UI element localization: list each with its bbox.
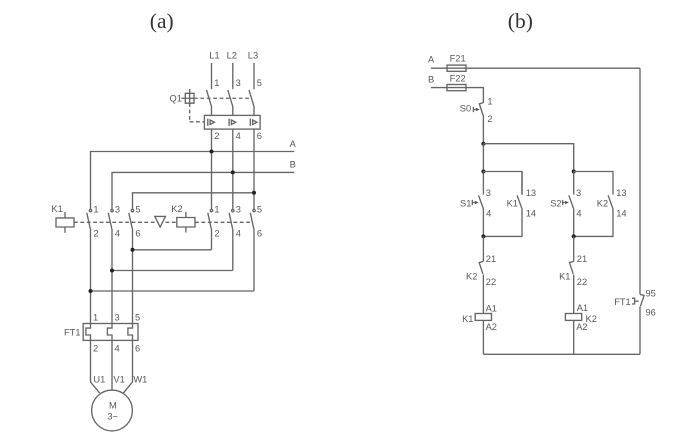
breaker Q1 manual operator — [181, 93, 194, 103]
coil K2 — [565, 314, 581, 321]
svg-text:(b): (b) — [508, 9, 533, 33]
svg-text:2: 2 — [487, 114, 492, 124]
coil K1 — [475, 314, 491, 321]
FT1 trip actuator — [632, 298, 639, 304]
svg-text:5: 5 — [135, 313, 140, 323]
svg-text:14: 14 — [526, 209, 536, 219]
wire FT1-4 to motor V1 — [111, 340, 113, 390]
breaker Q1 pole 2 contact — [228, 90, 233, 116]
svg-text:F22: F22 — [450, 74, 466, 84]
svg-text:K1: K1 — [462, 314, 473, 324]
start button S1 (NO) — [479, 195, 484, 236]
svg-text:A: A — [428, 55, 435, 65]
wire K1 coil to bottom — [482, 320, 484, 354]
svg-text:S2: S2 — [550, 198, 561, 208]
motor M1 body — [92, 390, 133, 431]
wire L1 drop — [211, 63, 213, 89]
svg-text:3: 3 — [115, 205, 120, 215]
svg-text:4: 4 — [236, 131, 241, 141]
svg-text:22: 22 — [486, 277, 496, 287]
svg-text:B: B — [290, 159, 296, 169]
K2 contact pole 3 — [250, 209, 255, 291]
svg-text:95: 95 — [646, 288, 656, 298]
wire S1 to K2 NC — [482, 236, 484, 261]
svg-text:K1: K1 — [51, 204, 62, 214]
svg-text:FT1: FT1 — [614, 297, 631, 307]
thermal contact FT1 95-96 (NC) — [640, 294, 644, 354]
FT1 heater element 3 — [128, 324, 133, 341]
svg-text:6: 6 — [257, 228, 262, 238]
svg-text:5: 5 — [257, 205, 262, 215]
svg-text:6: 6 — [257, 131, 262, 141]
svg-text:4: 4 — [486, 209, 491, 219]
svg-text:M: M — [109, 401, 117, 411]
svg-text:S1: S1 — [460, 198, 471, 208]
svg-text:L3: L3 — [248, 51, 258, 61]
junction S1/K1 aux — [481, 234, 485, 238]
breaker Q1 overcurrent release I> 1 — [208, 119, 215, 126]
junction K1-2 — [89, 289, 93, 293]
wire K2 coil to bottom — [573, 320, 575, 354]
svg-text:5: 5 — [135, 205, 140, 215]
wire branch to K1 aux — [483, 172, 522, 195]
svg-text:4: 4 — [115, 228, 120, 238]
junction S2/K2 aux — [572, 234, 576, 238]
svg-text:1: 1 — [214, 78, 219, 88]
svg-text:A2: A2 — [486, 322, 497, 332]
svg-text:2: 2 — [93, 343, 98, 353]
svg-text:4: 4 — [115, 343, 120, 353]
svg-text:L2: L2 — [227, 51, 237, 61]
stop button S0 (NC) — [479, 103, 483, 144]
K2 contact pole 1 — [208, 209, 213, 249]
breaker Q1 trip unit box — [204, 115, 260, 129]
junction L1/A — [210, 150, 214, 154]
wire branch to K2 aux — [574, 172, 613, 195]
svg-text:3: 3 — [486, 188, 491, 198]
interlock contact K1 21-22 (NC) — [570, 261, 574, 313]
svg-text:96: 96 — [646, 308, 656, 318]
svg-text:1: 1 — [93, 205, 98, 215]
thermal relay FT1 box — [83, 324, 138, 341]
svg-text:K2: K2 — [466, 272, 477, 282]
svg-text:13: 13 — [526, 188, 536, 198]
svg-text:(a): (a) — [150, 9, 174, 33]
S0 actuator arrowhead — [476, 108, 480, 112]
crossover wire K1-4 to K2-4 — [112, 270, 233, 272]
aux contact K1 13-14 (NO) — [483, 172, 522, 237]
svg-text:2: 2 — [93, 228, 98, 238]
svg-text:K1: K1 — [559, 272, 570, 282]
wire B to S0 — [431, 88, 484, 103]
fuse F22 — [447, 85, 466, 91]
wire FT1-2 to motor U1 — [91, 340, 100, 393]
svg-text:B: B — [428, 75, 434, 85]
svg-text:22: 22 — [577, 277, 587, 287]
svg-text:K1: K1 — [507, 198, 518, 208]
K1 linkage (dashed) — [74, 221, 252, 223]
K1 contact pole 3 — [129, 209, 134, 323]
svg-text:A1: A1 — [486, 304, 497, 314]
wire L2 drop — [232, 63, 234, 89]
svg-text:U1: U1 — [93, 374, 105, 384]
svg-text:14: 14 — [616, 209, 626, 219]
contactor K2 coil — [177, 212, 195, 233]
FT1 heater element 1 — [86, 324, 91, 341]
breaker Q1 pole 3 contact — [249, 90, 254, 116]
FT1 heater element 2 — [107, 324, 112, 341]
svg-text:4: 4 — [236, 228, 241, 238]
node B wire — [112, 172, 294, 209]
aux contact K2 13-14 (NO) — [574, 195, 613, 236]
svg-text:2: 2 — [214, 228, 219, 238]
contactor K1 coil — [56, 212, 74, 233]
svg-text:2: 2 — [214, 131, 219, 141]
wire L1 below breaker — [211, 129, 213, 210]
wire L3 branch — [133, 193, 255, 210]
wire L3 below breaker — [253, 129, 255, 210]
svg-text:W1: W1 — [133, 374, 147, 384]
wire L2 below breaker — [232, 129, 234, 210]
K2 contact pole 2 — [229, 209, 234, 270]
svg-text:3: 3 — [576, 188, 581, 198]
breaker Q1 overcurrent release I> 2 — [229, 119, 236, 126]
wire L3 drop — [253, 63, 255, 89]
svg-text:1: 1 — [214, 205, 219, 215]
breaker Q1 overcurrent release I> 3 — [250, 119, 257, 126]
svg-text:13: 13 — [616, 188, 626, 198]
svg-text:6: 6 — [135, 228, 140, 238]
wire S2 to K1 NC — [573, 236, 575, 261]
bottom return wire — [483, 353, 640, 355]
svg-text:21: 21 — [486, 254, 496, 264]
wire branch to S2 column — [483, 144, 573, 172]
svg-text:K2: K2 — [597, 198, 608, 208]
svg-text:A: A — [290, 139, 297, 149]
svg-text:6: 6 — [135, 343, 140, 353]
junction S2 branch — [572, 170, 576, 174]
mechanical interlock triangle — [155, 216, 166, 227]
svg-text:Q1: Q1 — [170, 93, 182, 103]
start button S2 (NO) — [569, 172, 574, 237]
svg-text:1: 1 — [93, 313, 98, 323]
wire FT1-6 to motor W1 — [123, 340, 132, 393]
K1 contact pole 2 — [108, 209, 113, 323]
svg-text:3: 3 — [236, 78, 241, 88]
junction K1-4 — [110, 269, 114, 273]
crossover wire K1-2 to K2-6 — [91, 290, 255, 292]
junction L2/B — [231, 170, 235, 174]
svg-text:21: 21 — [577, 254, 587, 264]
svg-text:3~: 3~ — [107, 412, 118, 422]
junction S1 branch — [481, 170, 485, 174]
breaker Q1 linkage (dashed) — [190, 89, 250, 122]
right rail wire — [639, 68, 641, 294]
S1 actuator — [472, 200, 475, 205]
svg-text:FT1: FT1 — [64, 327, 81, 337]
S2 actuator arrowhead — [565, 201, 569, 205]
svg-text:K2: K2 — [171, 204, 182, 214]
junction K1-6 — [131, 248, 135, 252]
svg-text:A2: A2 — [576, 322, 587, 332]
svg-text:4: 4 — [576, 209, 581, 219]
svg-text:A1: A1 — [577, 303, 588, 313]
wire S0 to junction 2 — [482, 144, 484, 172]
S2 actuator — [563, 200, 566, 205]
K1 contact pole 1 — [87, 209, 92, 323]
svg-text:S0: S0 — [460, 103, 471, 113]
junction L3 branch — [252, 191, 256, 195]
svg-text:V1: V1 — [113, 374, 124, 384]
breaker Q1 pole 1 contact — [207, 90, 212, 116]
svg-text:5: 5 — [257, 78, 262, 88]
junction below S0 — [481, 142, 485, 146]
interlock contact K2 21-22 (NC) — [479, 261, 483, 313]
fuse F21 — [447, 65, 466, 71]
svg-text:1: 1 — [487, 96, 492, 106]
crossover wire K1-6 to K2-2 — [133, 249, 212, 251]
svg-text:F21: F21 — [450, 54, 466, 64]
S1 actuator arrowhead — [475, 201, 479, 205]
wire to S1 — [482, 172, 484, 195]
S0 actuator — [473, 107, 476, 112]
node A wire — [91, 152, 295, 210]
svg-text:L1: L1 — [209, 51, 219, 61]
svg-text:3: 3 — [236, 205, 241, 215]
wire A to right rail — [431, 67, 640, 69]
svg-text:3: 3 — [115, 313, 120, 323]
